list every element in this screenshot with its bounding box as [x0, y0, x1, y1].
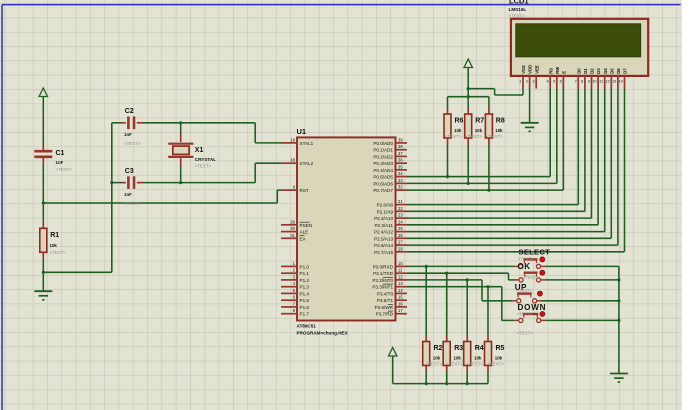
- svg-text:30: 30: [290, 226, 295, 231]
- ground symbol bottom-left: [34, 291, 52, 300]
- button DOWN: [514, 303, 546, 322]
- svg-text:R5: R5: [496, 345, 505, 352]
- svg-text:32: 32: [398, 185, 403, 190]
- svg-text:<TEXT>: <TEXT>: [445, 134, 462, 139]
- svg-text:VDD: VDD: [528, 65, 533, 74]
- svg-text:<TEXT>: <TEXT>: [518, 256, 534, 261]
- svg-text:3: 3: [532, 80, 534, 84]
- wire P3.1 to OK button: [407, 272, 515, 280]
- resistor R7: [465, 97, 485, 145]
- wire R2 to +5V rail: [425, 372, 427, 384]
- svg-text:P3.7/RD: P3.7/RD: [376, 312, 394, 317]
- wire P3.0 to SELECT button: [407, 265, 514, 268]
- wire VDD to ground: [529, 89, 531, 123]
- svg-text:R2: R2: [434, 345, 443, 352]
- svg-text:22: 22: [398, 206, 403, 211]
- wire D0 net P2.0 to LCD: [407, 89, 578, 205]
- svg-text:P3.5/T1: P3.5/T1: [377, 298, 394, 303]
- svg-text:34: 34: [398, 171, 403, 176]
- svg-text:19: 19: [290, 137, 295, 142]
- svg-text:R6: R6: [455, 118, 464, 125]
- svg-text:P2.6/A14: P2.6/A14: [374, 243, 393, 248]
- wire pullup rail R6-R8: [448, 95, 489, 98]
- svg-text:13: 13: [612, 80, 616, 84]
- label TEXT below DOWN: [517, 331, 534, 336]
- svg-text:<TEXT>: <TEXT>: [466, 134, 483, 139]
- wire D3 net P2.3 to LCD: [407, 89, 598, 225]
- svg-text:R1: R1: [50, 232, 59, 239]
- svg-text:P3.0/RXD: P3.0/RXD: [373, 264, 394, 269]
- svg-text:D2: D2: [590, 68, 595, 74]
- svg-text:D5: D5: [609, 68, 614, 74]
- wire UP to ground net: [541, 299, 620, 302]
- button OK: [515, 262, 546, 282]
- wire capacitor ground return to C2/C3: [42, 123, 114, 274]
- svg-text:D3: D3: [596, 68, 601, 74]
- svg-text:P3.3/INT1: P3.3/INT1: [372, 285, 393, 290]
- svg-text:14: 14: [619, 80, 623, 84]
- wire C1 to R1 (net RST divider): [42, 165, 44, 222]
- resistor R6: [444, 97, 464, 145]
- svg-text:10k: 10k: [495, 355, 503, 360]
- svg-text:31: 31: [290, 233, 295, 238]
- wire D4 net P2.4 to LCD: [407, 89, 605, 232]
- svg-text:10k: 10k: [475, 128, 483, 133]
- wire RS net P0.5 to LCD: [407, 89, 550, 177]
- svg-text:P2.2/A10: P2.2/A10: [374, 216, 393, 221]
- svg-text:P2.5/A13: P2.5/A13: [374, 236, 393, 241]
- svg-text:38: 38: [398, 144, 403, 149]
- svg-text:P0.6/AD6: P0.6/AD6: [373, 181, 393, 186]
- power +5V arrow mid (LCD contrast pullups): [464, 59, 472, 97]
- wire C3 to XTAL2: [144, 163, 282, 184]
- svg-text:7: 7: [575, 80, 577, 84]
- capacitor C1: [34, 146, 72, 172]
- button UP: [512, 283, 542, 303]
- svg-text:1: 1: [519, 80, 521, 84]
- ground symbol bottom-right: [610, 374, 628, 383]
- svg-text:10: 10: [398, 261, 403, 266]
- wire DOWN to ground net: [545, 319, 620, 322]
- svg-text:P0.0/AD0: P0.0/AD0: [373, 141, 393, 146]
- svg-text:XTAL2: XTAL2: [300, 161, 314, 166]
- svg-text:P2.3/A11: P2.3/A11: [374, 223, 393, 228]
- wire C2 to XTAL1: [144, 121, 282, 143]
- svg-text:R3: R3: [454, 345, 463, 352]
- wire +5V rail bottom: [393, 382, 488, 385]
- svg-text:1nF: 1nF: [124, 132, 132, 137]
- resistor R8: [485, 97, 504, 145]
- capacitor C3: [112, 168, 144, 206]
- svg-text:33: 33: [398, 178, 403, 183]
- svg-text:D4: D4: [603, 68, 608, 74]
- svg-text:18: 18: [290, 158, 295, 163]
- svg-text:E: E: [562, 71, 567, 74]
- svg-text:1nF: 1nF: [56, 160, 64, 165]
- wire D6 net P2.6 to LCD: [407, 89, 618, 246]
- svg-text:28: 28: [398, 246, 403, 251]
- svg-text:<TEXT>: <TEXT>: [426, 361, 443, 366]
- svg-text:11: 11: [599, 80, 603, 84]
- op-amp U1 microcontroller AT89C51: [281, 127, 407, 336]
- wire D5 net P2.5 to LCD: [407, 89, 611, 239]
- svg-text:P1.5: P1.5: [300, 298, 310, 303]
- svg-text:9: 9: [588, 80, 590, 84]
- white right margin strip: [682, 0, 696, 410]
- svg-text:27: 27: [398, 240, 403, 245]
- svg-text:17: 17: [398, 308, 403, 313]
- svg-text:P2.4/A12: P2.4/A12: [374, 230, 393, 235]
- svg-text:14: 14: [398, 288, 403, 293]
- svg-text:R8: R8: [496, 118, 505, 125]
- svg-text:D7: D7: [623, 68, 628, 74]
- wire VSS to +5V staircase: [467, 87, 523, 95]
- svg-text:PSEN: PSEN: [300, 223, 313, 228]
- wire RST net horizontal to U1: [42, 190, 281, 204]
- svg-text:12: 12: [398, 274, 403, 279]
- svg-text:SELECT: SELECT: [519, 248, 551, 257]
- svg-text:<TEXT>: <TEXT>: [124, 201, 141, 206]
- wire D2 net P2.2 to LCD: [407, 89, 592, 219]
- svg-text:U1: U1: [297, 127, 307, 136]
- svg-text:10k: 10k: [454, 128, 462, 133]
- resistor R1: [40, 222, 66, 259]
- svg-text:<TEXT>: <TEXT>: [56, 167, 73, 172]
- svg-text:<TEXT>: <TEXT>: [467, 361, 484, 366]
- power +5V arrow top-left: [39, 88, 47, 146]
- svg-text:15: 15: [398, 295, 403, 300]
- wire P3.3 to DOWN button: [407, 285, 514, 320]
- svg-text:4: 4: [546, 80, 548, 84]
- svg-text:P3.4/T0: P3.4/T0: [377, 291, 394, 296]
- svg-text:P0.1/AD1: P0.1/AD1: [373, 148, 393, 153]
- svg-text:P1.4: P1.4: [300, 291, 310, 296]
- power +5V arrow bottom: [389, 348, 397, 384]
- svg-text:29: 29: [290, 219, 295, 224]
- wire OK to ground net: [545, 278, 621, 281]
- wire E net P0.7 to LCD: [407, 89, 563, 191]
- svg-text:VEE: VEE: [534, 65, 539, 74]
- svg-text:<TEXT>: <TEXT>: [517, 288, 533, 293]
- wire RW net P0.6 to LCD: [407, 89, 557, 184]
- svg-text:P0.5/AD5: P0.5/AD5: [373, 175, 393, 180]
- svg-text:P2.0/A8: P2.0/A8: [377, 203, 394, 208]
- svg-text:<TEXT>: <TEXT>: [488, 361, 505, 366]
- svg-text:16: 16: [398, 301, 403, 306]
- svg-text:P2.7/A15: P2.7/A15: [374, 250, 393, 255]
- svg-text:P0.2/AD2: P0.2/AD2: [373, 154, 393, 159]
- svg-text:24: 24: [398, 219, 403, 224]
- capacitor C2: [112, 108, 144, 146]
- svg-text:<TEXT>: <TEXT>: [517, 312, 533, 317]
- resistor R5: [485, 335, 505, 372]
- svg-text:26: 26: [398, 233, 403, 238]
- wire R6 to net: [446, 145, 449, 179]
- svg-text:2: 2: [526, 80, 528, 84]
- svg-text:C1: C1: [56, 150, 65, 157]
- svg-text:RS: RS: [548, 68, 553, 74]
- svg-text:10k: 10k: [50, 243, 58, 248]
- svg-text:P1.1: P1.1: [300, 271, 310, 276]
- ground symbol under LCD: [521, 123, 539, 132]
- svg-text:X1: X1: [195, 147, 204, 154]
- resistor R2: [423, 335, 443, 372]
- svg-text:23: 23: [398, 213, 403, 218]
- svg-text:P1.6: P1.6: [300, 305, 310, 310]
- wire R3 to +5V rail: [446, 372, 448, 384]
- svg-text:21: 21: [398, 199, 403, 204]
- svg-text:11: 11: [398, 268, 403, 273]
- wire R5 to +5V rail: [487, 372, 489, 384]
- svg-text:LCD1: LCD1: [509, 0, 529, 6]
- svg-text:37: 37: [398, 151, 403, 156]
- svg-text:<TEXT>: <TEXT>: [517, 331, 534, 336]
- wire D1 net P2.1 to LCD: [407, 89, 585, 212]
- svg-text:OK: OK: [518, 262, 531, 271]
- button SELECT: [514, 248, 550, 269]
- svg-text:1nF: 1nF: [124, 192, 132, 197]
- svg-text:P1.0: P1.0: [300, 264, 310, 269]
- svg-text:10k: 10k: [474, 355, 482, 360]
- svg-text:R4: R4: [475, 345, 484, 352]
- svg-text:R7: R7: [475, 118, 484, 125]
- wire SELECT to ground net: [545, 266, 619, 373]
- wire P3.2 to UP button: [407, 278, 512, 301]
- svg-text:CRYSTAL: CRYSTAL: [195, 157, 216, 162]
- svg-text:VSS: VSS: [521, 65, 526, 74]
- wire R2 to button net: [425, 266, 427, 335]
- resistor R4: [464, 335, 484, 372]
- svg-text:P3.6/WR: P3.6/WR: [375, 305, 394, 310]
- svg-text:RW: RW: [555, 66, 560, 74]
- crystal X1: [168, 123, 216, 183]
- svg-text:P0.3/AD3: P0.3/AD3: [373, 161, 393, 166]
- svg-text:P0.4/AD4: P0.4/AD4: [373, 168, 393, 173]
- svg-text:25: 25: [398, 226, 403, 231]
- svg-text:AT89C51: AT89C51: [297, 324, 317, 329]
- svg-text:10: 10: [592, 80, 596, 84]
- wire R8 to net: [487, 145, 490, 192]
- svg-text:35: 35: [398, 164, 403, 169]
- svg-text:<TEXT>: <TEXT>: [523, 275, 539, 280]
- svg-text:10k: 10k: [454, 355, 462, 360]
- svg-text:<TEXT>: <TEXT>: [486, 134, 503, 139]
- svg-text:D0: D0: [576, 68, 581, 74]
- wire R4 to button net: [466, 280, 468, 335]
- svg-text:LM016L: LM016L: [509, 7, 527, 13]
- svg-text:P1.3: P1.3: [300, 285, 310, 290]
- svg-text:D1: D1: [583, 68, 588, 74]
- svg-text:P3.2/INT0: P3.2/INT0: [372, 278, 393, 283]
- svg-text:8: 8: [581, 80, 583, 84]
- svg-text:XTAL1: XTAL1: [300, 141, 314, 146]
- svg-text:C2: C2: [125, 108, 134, 115]
- wire R4 to +5V rail: [466, 372, 468, 384]
- svg-text:PROGRAM=chung.HEX: PROGRAM=chung.HEX: [297, 331, 349, 336]
- svg-text:<TEXT>: <TEXT>: [50, 250, 67, 255]
- svg-text:P3.1/TXD: P3.1/TXD: [373, 271, 394, 276]
- svg-text:<TEXT>: <TEXT>: [446, 361, 463, 366]
- wire R5 to button net: [487, 287, 489, 335]
- wire D7 net P2.7 to LCD: [407, 89, 625, 252]
- svg-text:<TEXT>: <TEXT>: [195, 164, 212, 169]
- svg-text:D6: D6: [616, 68, 621, 74]
- svg-text:RST: RST: [300, 188, 309, 193]
- svg-text:13: 13: [398, 281, 403, 286]
- wire R1 to ground: [42, 259, 44, 291]
- resistor R3: [443, 335, 463, 372]
- svg-text:10k: 10k: [433, 355, 441, 360]
- svg-text:12: 12: [605, 80, 609, 84]
- svg-text:39: 39: [398, 137, 403, 142]
- svg-text:P1.2: P1.2: [300, 278, 310, 283]
- svg-text:EA: EA: [300, 236, 307, 241]
- svg-text:ALE: ALE: [300, 230, 309, 235]
- svg-text:36: 36: [398, 158, 403, 163]
- svg-text:P1.7: P1.7: [300, 312, 310, 317]
- svg-text:10k: 10k: [495, 128, 503, 133]
- svg-text:P0.7/AD7: P0.7/AD7: [373, 188, 393, 193]
- svg-text:<TEXT>: <TEXT>: [124, 141, 141, 146]
- wire R3 to button net: [446, 273, 448, 335]
- svg-text:C3: C3: [125, 168, 134, 175]
- svg-text:6: 6: [560, 80, 562, 84]
- LCD display LCD1 LM016L: [509, 0, 649, 89]
- wire R7 to net: [467, 145, 470, 185]
- svg-text:P2.1/A9: P2.1/A9: [377, 209, 394, 214]
- svg-text:5: 5: [553, 80, 555, 84]
